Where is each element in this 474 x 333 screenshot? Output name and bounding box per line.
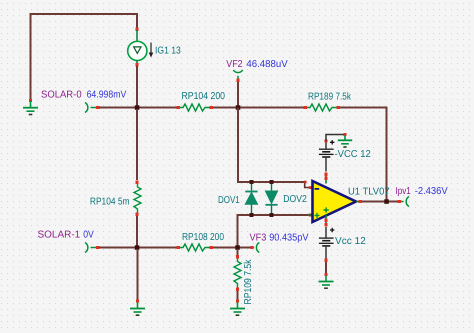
op-amp bottom supply stub [325, 214, 328, 227]
label DOV2 [283, 194, 307, 205]
label RP104 5m [90, 196, 130, 207]
ground left [23, 99, 38, 115]
diode rail bottom [238, 214, 309, 216]
label U1 TLV07 [348, 186, 390, 197]
label Vcc 12 [335, 236, 366, 247]
wire IG1 to node A [136, 66, 138, 108]
ground at -VCC [338, 133, 352, 147]
svg-text:DOV2: DOV2 [283, 194, 307, 205]
svg-text:46.488uV: 46.488uV [246, 59, 288, 70]
svg-text:RP104 5m: RP104 5m [90, 196, 130, 207]
svg-text:90.435pV: 90.435pV [269, 232, 309, 243]
terminal Ipv1 [401, 197, 409, 207]
battery Vcc 12 [319, 227, 335, 262]
svg-text:VF2: VF2 [226, 59, 243, 70]
current source IG1 [128, 28, 154, 67]
label SOLAR-0 [41, 90, 82, 101]
svg-text:RP108 200: RP108 200 [182, 232, 224, 243]
resistor RP104 5m vertical [134, 109, 141, 248]
wire VF2 probe to node B [237, 82, 239, 108]
svg-text:Vcc 12: Vcc 12 [335, 236, 366, 247]
op-amp U1 [313, 181, 357, 222]
node B junction [236, 105, 241, 110]
ground below RP104 5m [130, 300, 145, 316]
svg-text:Ipv1: Ipv1 [396, 186, 412, 197]
op-amp top supply stub [325, 173, 328, 184]
node D junction [235, 245, 240, 250]
label VF3 [250, 232, 267, 243]
label RP109 7.5k [243, 259, 254, 305]
diode DOV1 [245, 182, 257, 215]
value 0V [83, 230, 94, 241]
label SOLAR-1 [38, 230, 81, 241]
wire RP108 to node D [213, 247, 251, 249]
resistor RP189 7.5k [304, 104, 341, 111]
op-amp minus input pin [304, 181, 313, 189]
label RP108 200 [182, 232, 224, 243]
wire bottom rail to SOLAR-1 node [237, 214, 239, 248]
junction DOV2 top [270, 180, 274, 184]
wire left vertical to ground [30, 13, 32, 100]
value 90.435pV [269, 232, 309, 243]
label -VCC 12 [335, 149, 372, 160]
svg-text:U1 TLV07: U1 TLV07 [348, 186, 390, 197]
ground below RP109 [230, 300, 245, 316]
svg-text:DOV1: DOV1 [218, 195, 240, 206]
op-amp output wire [356, 200, 401, 203]
op-amp plus input pin [309, 214, 313, 217]
wire RP104 to node B [213, 107, 305, 109]
value 46.488uV [246, 59, 288, 70]
feedback junction [384, 199, 389, 204]
junction DOV1 top [250, 180, 254, 184]
label Ipv1 [396, 186, 412, 197]
wire Vcc to ground [325, 262, 327, 273]
terminal SOLAR-0 [85, 103, 100, 113]
junction DOV2 bottom [270, 213, 274, 217]
label DOV1 [218, 195, 240, 206]
diode DOV2 [265, 182, 277, 215]
value 64.998mV [87, 90, 127, 101]
svg-text:0V: 0V [83, 230, 94, 241]
wire -VCC plus to ground [326, 135, 344, 142]
wire SOLAR-1 row left [99, 247, 177, 249]
wire node B down to diode rail [238, 108, 305, 183]
svg-text:-VCC 12: -VCC 12 [335, 149, 372, 160]
resistor RP104 200 [177, 104, 214, 111]
junction DOV1 bottom [250, 213, 254, 217]
wire RP189 to feedback corner [340, 108, 387, 201]
svg-text:RP189 7.5k: RP189 7.5k [308, 91, 352, 102]
label RP104 200 [182, 91, 226, 102]
probe VF3 [251, 243, 260, 253]
svg-text:VF3: VF3 [250, 232, 267, 243]
node C junction [135, 245, 140, 250]
probe VF2 [233, 70, 242, 82]
svg-text:IG1 13: IG1 13 [155, 45, 181, 56]
svg-text:64.998mV: 64.998mV [87, 90, 127, 101]
svg-text:-2.436V: -2.436V [415, 186, 448, 197]
svg-text:SOLAR-0: SOLAR-0 [41, 90, 82, 101]
terminal SOLAR-1 [85, 243, 100, 253]
value -2.436V [415, 186, 448, 197]
wire node C to ground [137, 249, 139, 300]
resistor RP109 7.5k vertical [234, 249, 241, 300]
svg-text:RP104 200: RP104 200 [182, 91, 226, 102]
resistor RP108 200 [177, 244, 214, 251]
svg-text:SOLAR-1: SOLAR-1 [38, 230, 81, 241]
label IG1 13 [155, 45, 181, 56]
label VF2 [226, 59, 243, 70]
label RP189 7.5k [308, 91, 352, 102]
svg-text:RP109 7.5k: RP109 7.5k [243, 259, 254, 305]
node A junction [135, 105, 140, 110]
wire top from left corner to IG1 [31, 14, 138, 29]
ground below Vcc [319, 273, 334, 288]
battery -VCC 12 [319, 140, 335, 172]
wire SOLAR-0 row [99, 107, 177, 109]
